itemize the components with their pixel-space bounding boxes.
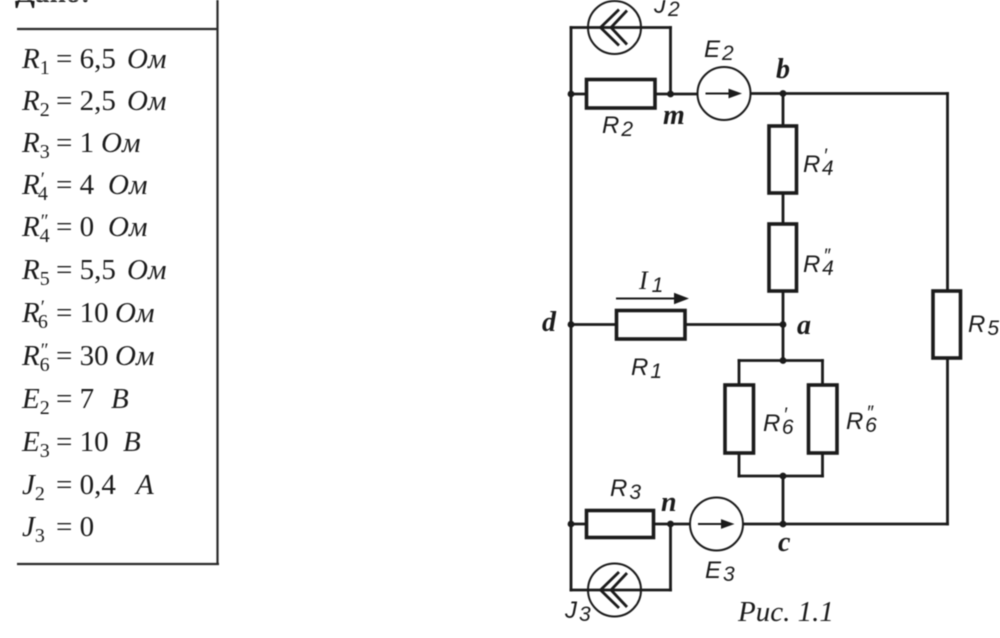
svg-text:c: c [778,527,791,558]
svg-text:E2= 7В: E2= 7В [21,383,129,419]
svg-text:Рис. 1.1: Рис. 1.1 [737,596,834,628]
EMF source E2 [698,67,751,120]
wire: n to E3 [654,523,691,526]
resistor R6' [725,385,754,453]
node m junction [667,91,674,98]
node b junction [780,90,787,97]
wire: top J2 rail [571,26,671,29]
svg-text:R″4= 0Ом: R″4= 0Ом [21,211,147,247]
wire: right rail upper (b row to R5) [946,94,949,292]
wire: d to R1 [571,323,616,326]
node c junction [780,521,787,528]
wire: R6 bottom join bar [739,475,823,478]
svg-text:R″4: R″4 [803,246,834,280]
current source J3 [588,564,641,617]
wire: right rail lower (R5 to c row) [946,358,949,524]
wire: b down to R4' [782,94,785,127]
resistor R3 [587,511,654,538]
wire: E3 to c to right rail [743,523,948,526]
wire: R4' to R4'' [782,193,785,224]
wire: R4'' down to node a [782,291,785,325]
svg-text:b: b [776,54,790,85]
resistor R6'' [809,385,838,453]
wire: R2 left lead [571,93,587,96]
resistor R5 [933,291,961,358]
wire: J3 right rise to node n [669,524,672,590]
wire: J2 right drop to node m [669,28,672,95]
node d junction [568,321,575,328]
node a junction [780,321,787,328]
svg-text:n: n [661,487,677,518]
wire: R6'' upper lead [821,361,824,386]
node n junction [667,521,674,528]
current arrow I1 [616,293,689,305]
junction at R2 left [568,91,575,98]
svg-text:R″6= 30Ом: R″6= 30Ом [21,340,154,376]
wire: R6' upper lead [738,361,741,386]
R6 join junction [780,473,787,480]
wire: join down to node c [782,476,785,524]
svg-text:E3= 10В: E3= 10В [21,426,141,462]
EMF source E3 [690,498,743,551]
svg-text:J3= 0: J3= 0 [22,511,94,547]
wire: E2 to b to right rail [751,92,948,95]
svg-text:R″6: R″6 [846,403,877,437]
wire: m to E2 [655,93,698,96]
svg-text:R′4= 4Ом: R′4= 4Ом [21,169,147,205]
wire: R6'' lower lead [821,453,824,476]
svg-text:d: d [542,307,557,338]
svg-text:a: a [797,310,811,341]
wire: R6 top split bar [739,359,823,362]
resistor R1 [617,311,686,340]
svg-text:Дано:: Дано: [15,0,90,9]
wire: R6' lower lead [738,453,741,476]
svg-text:R′6= 10Ом: R′6= 10Ом [21,297,154,333]
wire: J3 bottom rail [571,589,671,592]
wire: a down to R6 split [782,325,785,361]
wire: bottom rail left segment [571,523,587,526]
given-data table frame [17,0,219,564]
resistor R2 [587,80,656,109]
wire: left rail (top to J3 rail) [570,28,573,591]
svg-text:m: m [663,100,685,131]
resistor R4' [769,126,797,193]
svg-text:R3= 1Ом: R3= 1Ом [21,127,140,163]
current source J2 [588,1,641,54]
wire: R1 to node a [685,323,783,326]
R6 split junction [780,357,787,364]
junction at R3 left [568,521,575,528]
resistor R4'' [769,224,797,291]
